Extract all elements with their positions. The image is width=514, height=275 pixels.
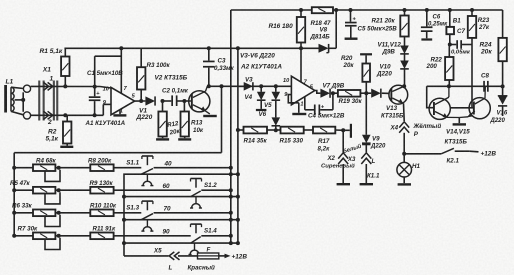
resistor R5 — [33, 187, 55, 194]
ground K1.1 — [360, 183, 373, 185]
switch S1.4 actuator — [191, 224, 202, 233]
label pin 2 — [47, 119, 52, 126]
ground H1 — [398, 183, 411, 185]
capacitor C8 — [483, 81, 489, 92]
label R21 — [372, 18, 396, 25]
node B row 4 rail — [229, 241, 240, 245]
ground A2 — [292, 103, 306, 115]
cable shield — [38, 81, 58, 121]
wire A2 pin9 jog — [288, 95, 299, 103]
label L wire — [372, 158, 376, 165]
label C3 — [214, 58, 235, 72]
wire L1 top to terminal — [11, 87, 23, 88]
node V1 cathode — [161, 99, 165, 103]
diode V5 — [272, 86, 281, 117]
wire row 3 to switch — [114, 212, 142, 214]
label yellow — [413, 123, 442, 138]
diode V3 — [239, 82, 253, 91]
wire chain2 — [267, 129, 281, 131]
label R16 — [269, 23, 294, 30]
wire divider left rail — [13, 153, 15, 236]
switch S1.2 actuator — [191, 179, 202, 188]
node X2 junction — [341, 128, 345, 132]
node B row 2 left — [122, 195, 126, 199]
resistor R19 — [331, 90, 366, 97]
resistor R18 — [312, 7, 333, 13]
hook under S1.2 — [190, 197, 202, 208]
wire X4 to node — [403, 133, 405, 154]
transistor V13 — [389, 85, 408, 104]
label A1 pin10 — [103, 87, 110, 93]
wire row 1 to switch — [114, 167, 142, 169]
connector X2 jack — [350, 124, 352, 138]
op-amp A1 — [111, 87, 135, 114]
label R4 — [36, 158, 57, 165]
node V5 top — [274, 84, 278, 88]
node divider branch — [220, 84, 224, 88]
wire row 4 mid — [55, 235, 90, 237]
diode V12 — [400, 61, 409, 87]
ground A1 — [113, 110, 126, 117]
label V11 V12 — [378, 42, 402, 56]
wire row 3 mid — [55, 212, 90, 214]
wire C1 top jog — [95, 48, 122, 93]
node row 3 A rail — [229, 211, 233, 215]
node row 2 A rail — [229, 188, 233, 192]
resistor R6 — [33, 210, 55, 217]
label C6 — [428, 15, 448, 28]
label A1 pin7 — [124, 86, 128, 92]
diode V1 — [145, 96, 155, 105]
label R11 — [93, 226, 116, 233]
label L1 — [6, 79, 14, 86]
label K1.1 — [367, 173, 380, 180]
switch S1.1 blade — [141, 169, 153, 175]
wire B rail — [237, 48, 239, 243]
node R1 bottom — [63, 84, 67, 88]
label R15 — [280, 137, 304, 144]
node C1 bottom — [93, 113, 97, 117]
label +12V bottom — [232, 253, 248, 260]
node row 1 A rail — [229, 166, 233, 170]
label C5 — [358, 26, 398, 33]
wire divider branch — [14, 86, 221, 152]
label C8 — [481, 73, 489, 80]
wire row 1 after switch — [154, 167, 231, 169]
diode V8 zener — [301, 8, 338, 53]
ground R12 — [156, 138, 169, 140]
label S1.1 — [126, 160, 139, 167]
switch S1.4 blade — [191, 237, 201, 244]
wire chain3 — [304, 129, 313, 131]
label X5 — [153, 248, 162, 255]
resistor R20 top bar — [360, 53, 372, 63]
label R19 — [339, 98, 363, 105]
connector K1.1 arrows — [361, 153, 371, 164]
connector X3 — [338, 153, 348, 164]
label pin 1 — [50, 76, 54, 83]
resistor R17 — [313, 127, 335, 134]
label A2 pin7 — [304, 80, 308, 86]
node V13 collector — [402, 84, 406, 88]
label +12V right — [481, 151, 497, 158]
wire X2 down — [342, 130, 344, 152]
capacitor C2 — [163, 95, 185, 106]
node row 3 mid — [57, 211, 61, 215]
node R19 right — [364, 91, 368, 95]
label V3-V6 group — [240, 52, 275, 59]
capacitor C7 — [450, 40, 472, 49]
label R2 — [46, 129, 59, 143]
node rail R16 top — [299, 8, 303, 12]
label A2 pin9 — [284, 92, 288, 98]
wiper loop R7 — [45, 238, 60, 250]
resistor R20 — [362, 64, 370, 94]
terminal L1 top — [23, 85, 30, 92]
node R3 bottom — [139, 99, 143, 103]
wiper loop R5 — [45, 192, 60, 204]
wire row 1 left — [14, 167, 33, 169]
label A1 pin5 — [132, 94, 136, 100]
resistor R21 — [400, 8, 408, 46]
label R6 — [12, 203, 33, 210]
resistor R23 — [468, 8, 476, 108]
diode V4 — [257, 86, 266, 109]
op-amp A2 — [291, 76, 314, 105]
wire row 4 after switch — [201, 235, 231, 237]
wire B row 4 — [124, 242, 238, 244]
node B row 2 rail — [229, 195, 240, 199]
node bias C3 tap — [207, 46, 211, 50]
wire A2 pin7 — [300, 48, 302, 82]
wire chain — [238, 129, 244, 131]
node B row 3 rail — [229, 218, 240, 222]
switch S1.3 blade — [141, 214, 153, 220]
wire X1-2 to A1 pin9 — [31, 104, 111, 115]
label R18 — [310, 20, 332, 40]
label V13 — [381, 105, 404, 119]
wire L1 center tap — [15, 92, 26, 112]
switch S1.2 blade — [191, 191, 201, 197]
wire row 2 mid — [55, 189, 90, 191]
label R23 — [478, 17, 490, 31]
label C4 — [308, 113, 345, 120]
wire right edge rail to C8 node — [502, 61, 504, 86]
wiper loop R6 — [45, 215, 60, 227]
label V9 — [370, 135, 386, 149]
diode V11 — [400, 46, 409, 61]
resistor R9 — [90, 187, 113, 194]
hook under S1.3 — [141, 220, 153, 231]
wire X5 line — [124, 255, 198, 257]
diode V16 — [498, 86, 508, 116]
resistor R13 — [181, 101, 189, 138]
label L bottom — [169, 265, 173, 272]
label X4 — [390, 124, 399, 131]
capacitor C3 — [203, 48, 215, 86]
label C2 — [162, 88, 189, 95]
node bias R1 top — [119, 46, 123, 50]
label R13 — [191, 120, 204, 135]
ground R13 — [178, 138, 191, 140]
label V5 — [264, 102, 272, 109]
wire K1.1 to ground — [365, 164, 367, 183]
ground R2 — [60, 146, 73, 148]
label K2.1 — [447, 158, 460, 165]
connector X5 — [169, 252, 179, 260]
label C7 — [451, 28, 471, 56]
node left rail row 4 — [12, 234, 16, 238]
label R3 — [147, 62, 171, 69]
wire row 3 left — [14, 212, 33, 214]
node B1 C7 — [448, 43, 452, 47]
label S1.3 — [126, 205, 139, 212]
wire V13 emitter — [403, 103, 406, 121]
wire row 4 to switch — [114, 235, 191, 237]
resistor R8 — [90, 164, 113, 171]
inductor L1 coil — [11, 87, 14, 111]
label S1.4 — [204, 228, 217, 235]
hook under S1.1 — [141, 174, 153, 185]
label range 40 — [164, 161, 173, 168]
wire row 2 left — [14, 189, 33, 191]
label X1 — [42, 67, 51, 74]
label S1.2 — [204, 182, 217, 189]
switch K2.1 — [404, 148, 478, 154]
label range 60 — [163, 183, 171, 190]
label A1 name — [85, 120, 126, 127]
label V4 — [245, 94, 253, 101]
label red — [188, 264, 215, 271]
node row 2 mid — [57, 188, 61, 192]
capacitor C6 — [421, 8, 433, 38]
label R12 — [167, 120, 181, 137]
resistor R1 — [61, 48, 69, 86]
node bias switch-rail tap — [236, 46, 240, 50]
label R9 — [90, 180, 114, 187]
label R1 — [40, 48, 63, 55]
ground X3 — [337, 183, 350, 185]
resistor R4 — [33, 164, 55, 171]
label F — [207, 247, 211, 254]
resistor R24 — [480, 38, 507, 61]
resistor R10 — [90, 210, 113, 217]
wiper loop R4 — [45, 170, 60, 182]
label B1 — [453, 18, 461, 25]
ground C6 — [421, 38, 432, 40]
label X2 — [327, 156, 336, 162]
transistor V14 — [429, 86, 459, 119]
label range 90 — [163, 229, 171, 236]
node left rail row 3 — [12, 211, 16, 215]
label A2 pin5 — [310, 85, 314, 91]
node chain V6 — [274, 128, 278, 132]
wire A1 out — [135, 100, 146, 102]
node bias R16 bottom — [299, 46, 303, 50]
label V3 — [245, 77, 253, 84]
ground V4 — [256, 109, 267, 111]
label A2 name — [240, 64, 282, 71]
label A2 pin1 — [300, 101, 303, 107]
resistor R12 — [158, 101, 166, 138]
transistor V2 — [184, 86, 210, 114]
resistor R22 — [445, 45, 453, 87]
switch S1.1 actuator — [142, 156, 153, 165]
terminal L1 bottom — [23, 112, 30, 119]
label V1 — [136, 108, 153, 122]
transistor V15 — [459, 87, 490, 119]
resistor R16 — [297, 10, 305, 48]
resistor R7 — [33, 233, 55, 240]
wire row 2 after switch — [201, 189, 231, 191]
node row 1 mid — [57, 166, 61, 170]
label R22 — [426, 57, 443, 70]
wire row 2 to switch — [114, 189, 191, 191]
wire V9 top — [365, 93, 367, 135]
capacitor C4 — [314, 93, 333, 115]
resistor R3 — [137, 48, 145, 101]
wire +supply top rail — [231, 10, 503, 243]
wire V14 collector to V15 base — [450, 107, 473, 109]
diode V10 — [366, 89, 389, 98]
label C1 — [87, 70, 123, 77]
wire output collector line — [427, 85, 503, 87]
node B row 4 left — [122, 241, 126, 245]
label V2 — [155, 75, 188, 82]
resistor R14 — [244, 127, 268, 134]
label V6 — [259, 111, 267, 118]
wire row 3 after switch — [154, 212, 231, 214]
node B row 3 left — [122, 218, 126, 222]
node C3 bottom — [207, 84, 211, 88]
connector X1 pin 1 — [44, 82, 53, 90]
ground V14 V15 emitters — [453, 118, 466, 126]
wire X1-1 to A1 pin10 — [31, 86, 111, 88]
label R10 — [90, 203, 117, 210]
resistor R15 — [281, 127, 304, 134]
node R22 bottom — [447, 84, 451, 88]
fuse F — [198, 253, 219, 259]
label white — [342, 142, 363, 155]
capacitor C5 — [345, 8, 357, 38]
wire chain4 — [335, 129, 350, 131]
wire V14 base feed — [427, 86, 434, 107]
node C8 right — [501, 84, 505, 88]
node chain left — [236, 128, 240, 132]
wire right edge rail upper — [502, 10, 504, 38]
switch S1.3 actuator — [142, 201, 153, 210]
resistor R11 — [90, 233, 113, 240]
wire row 4 left — [14, 235, 33, 237]
resistor R2 — [63, 115, 71, 145]
label A2 pin10 — [283, 78, 290, 84]
connector X1 pin 2 — [44, 111, 53, 119]
node R2 top — [63, 113, 67, 117]
node C2 right — [182, 99, 186, 103]
node lamp junction — [402, 152, 406, 156]
label H1 — [412, 163, 420, 170]
label range 70 — [164, 206, 172, 213]
diode V6 — [272, 117, 281, 130]
label V14 V15 — [445, 128, 471, 145]
lamp H1 — [397, 154, 412, 183]
wire B row 2 — [124, 196, 238, 198]
diode V9 — [362, 135, 371, 153]
inductor L1 core — [4, 85, 7, 113]
label R5 — [10, 180, 31, 187]
label V10 — [376, 64, 392, 78]
label V16 — [490, 111, 508, 124]
node C4 top — [331, 91, 335, 95]
wire X3 to ground — [342, 164, 344, 183]
sensor B1 — [446, 8, 454, 45]
ground V2 emitter — [203, 115, 217, 117]
label R14 — [244, 137, 268, 144]
hook under S1.4 — [189, 243, 201, 254]
wire A2 pin1 stub — [305, 97, 315, 110]
ground C5 — [345, 38, 358, 40]
connector X4 — [399, 122, 409, 133]
wire B row 1 — [124, 174, 238, 256]
node B1 rail — [229, 172, 240, 176]
wire L1 bottom to terminal — [11, 111, 23, 114]
label A1 pin1 — [120, 109, 123, 115]
wire B row 3 — [124, 219, 238, 221]
wire row 1 mid — [55, 167, 90, 169]
node C1 top-wire — [93, 85, 97, 89]
label R8 — [88, 158, 112, 165]
node left rail row 1 — [12, 166, 16, 170]
diode V7 — [320, 89, 330, 98]
label R17 — [318, 138, 331, 152]
label A1 pin9 — [103, 100, 107, 106]
wire V2 collector line — [207, 85, 291, 87]
label X3 — [347, 157, 356, 163]
wire A2 out — [315, 91, 321, 94]
label R20 — [341, 55, 354, 69]
wire bias line — [64, 47, 301, 49]
node left rail row 2 — [12, 188, 16, 192]
node row 4 mid — [57, 234, 61, 238]
node row 4 A rail — [229, 234, 233, 238]
label V7 — [323, 83, 345, 90]
wire fuse to +12V — [219, 254, 231, 259]
label R7 — [18, 226, 39, 233]
label lilac — [321, 163, 355, 170]
node V4 top — [259, 84, 263, 88]
capacitor C1 — [89, 56, 101, 115]
